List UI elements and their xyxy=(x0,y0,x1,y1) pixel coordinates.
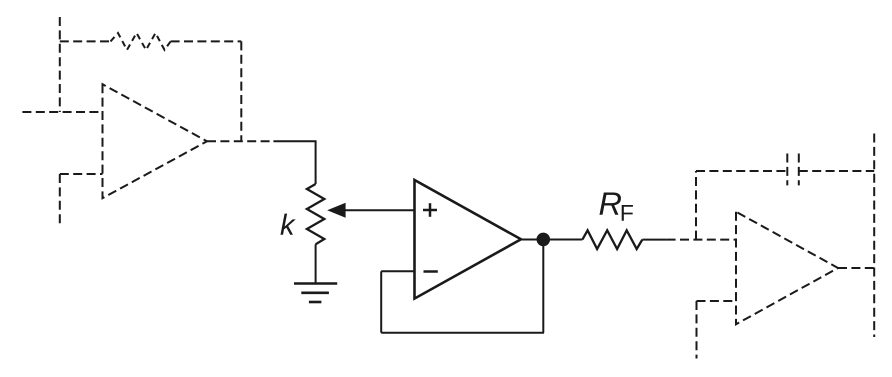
wire: left op-amp inverting input lead (dashed) xyxy=(60,173,103,175)
wire: potentiometer bottom to ground xyxy=(315,244,317,283)
ground xyxy=(294,284,337,303)
wire: right vertical bus (dashed) xyxy=(873,134,875,338)
label: plus sign xyxy=(423,203,437,217)
wire: wiper to buffer + input xyxy=(344,209,415,211)
wire: left op-amp output (dashed) xyxy=(207,140,273,142)
wire: right op-amp inverting input lead (dashed) xyxy=(697,300,737,302)
label k (potentiometer value) xyxy=(280,214,295,235)
wire: dashed lead to right op-amp + input xyxy=(667,239,736,241)
op-amp U1 (center buffer, solid) xyxy=(415,180,522,299)
resistor RF xyxy=(582,230,642,249)
op-amp A1 (dashed, preceding stage) xyxy=(103,84,208,198)
wire: vertical stub through feedback node to + input (dashed) xyxy=(59,17,61,112)
wire: capacitor feedback top right (dashed) xyxy=(799,170,874,172)
label RF (feedback resistor reference) xyxy=(599,192,620,214)
wire: capacitor feedback riser (dashed) xyxy=(695,171,697,240)
resistor R (dashed feedback resistor of left stage) xyxy=(111,33,171,50)
wire: feedback top, left segment (dashed) xyxy=(60,40,111,42)
wire: left op-amp noninverting input lead (dashed) xyxy=(22,111,102,113)
label: minus sign xyxy=(424,270,438,273)
node: output junction dot xyxy=(537,233,551,247)
wire: capacitor feedback top left (dashed) xyxy=(696,170,787,172)
wire: feedback bottom run xyxy=(381,332,544,334)
wire: feedback left drop xyxy=(380,271,382,332)
wiper arrow (tap of potentiometer) xyxy=(327,203,345,218)
wire: inverting input stub down (dashed) xyxy=(59,174,61,227)
wire: inverting input lead xyxy=(381,270,414,272)
wire: output to potentiometer top (solid) xyxy=(273,141,315,184)
wire: buffer output xyxy=(521,239,582,241)
wire: right op-amp output (dashed) xyxy=(838,267,874,269)
wire: inverting input stub down (dashed) xyxy=(696,301,698,359)
potentiometer k (vertical resistor element) xyxy=(307,184,324,244)
wire: feedback riser to output node xyxy=(542,240,544,333)
wire: feedback top, right segment (dashed) xyxy=(171,40,242,42)
wire: feedback right drop to output (dashed) xyxy=(240,41,242,141)
wire: RF to right stage (solid stub) xyxy=(642,239,666,241)
op-amp A2 (dashed, following stage) xyxy=(736,212,838,325)
capacitor C (dashed feedback capacitor of next stage) xyxy=(786,154,788,186)
